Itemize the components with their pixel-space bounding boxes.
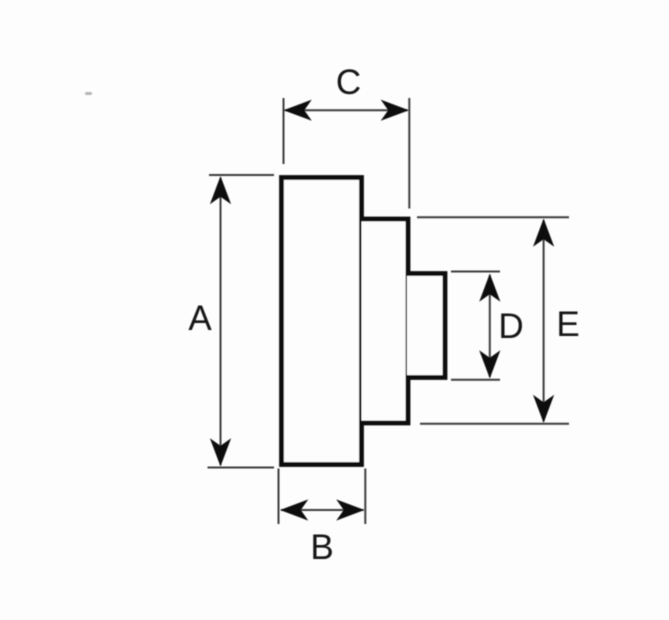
dimension E line <box>543 220 545 422</box>
artifact mark top-left <box>85 92 92 95</box>
dimension D extension line top <box>451 271 500 273</box>
svg-text:B: B <box>310 528 333 567</box>
dimension E arrowhead down <box>533 395 554 423</box>
dimension B extension line right <box>364 469 366 525</box>
dimension C extension line left <box>283 98 285 164</box>
dimension E arrowhead up <box>533 219 554 247</box>
dimension C arrowhead left <box>284 100 312 121</box>
dimension A extension line top <box>209 174 274 176</box>
dimension C extension line right <box>408 98 410 209</box>
svg-text:C: C <box>336 63 361 102</box>
dimension E extension line bottom <box>420 423 569 425</box>
dimension A extension line bottom <box>208 467 275 469</box>
dimension A line <box>220 178 222 465</box>
small step rectangle (right boss) of part outline <box>407 274 445 378</box>
svg-text:A: A <box>188 299 212 338</box>
middle step rectangle of part outline <box>362 219 409 423</box>
main body rectangle (large left block of part outline) <box>282 178 362 465</box>
dimension B extension line left <box>278 469 280 525</box>
dimension D arrowhead down <box>479 350 500 378</box>
dimension D line <box>489 275 491 377</box>
svg-text:E: E <box>556 305 579 344</box>
dimension B arrowhead left <box>280 499 308 520</box>
dimension A arrowhead up <box>210 176 231 204</box>
dimension B arrowhead right <box>336 499 364 520</box>
dimension E extension line top <box>417 216 569 218</box>
svg-text:D: D <box>498 307 523 346</box>
dimension D arrowhead up <box>479 274 500 302</box>
dimension D extension line bottom <box>451 379 500 381</box>
dimension A arrowhead down <box>210 438 231 466</box>
dimension B line <box>281 509 364 511</box>
dimension C line <box>285 109 408 111</box>
dimension C arrowhead right <box>381 100 409 121</box>
